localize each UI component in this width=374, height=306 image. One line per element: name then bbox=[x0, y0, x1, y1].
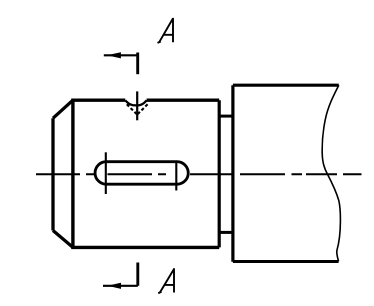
section A bottom arrowhead bbox=[107, 283, 121, 289]
relief groove bottom edge bbox=[219, 231, 233, 234]
section A top horizontal line bbox=[104, 54, 138, 56]
chamfer edge vertical bbox=[71, 100, 74, 247]
oil hole hidden cone right bbox=[138, 104, 148, 114]
chamfer top bbox=[53, 100, 73, 118]
relief groove top edge bbox=[219, 115, 233, 118]
keyway slot outline bbox=[95, 162, 188, 185]
centerline horizontal dash-dot bbox=[36, 173, 362, 175]
oil hole hidden cone left bbox=[127, 104, 137, 114]
large cylinder left shoulder face bbox=[231, 85, 234, 262]
shaft left end face bbox=[51, 118, 54, 230]
label A top bbox=[158, 18, 174, 43]
countersink dip in top edge bbox=[125, 100, 146, 105]
oil hole centerline vertical bbox=[136, 91, 138, 120]
shaft top edge left of countersink dip bbox=[71, 98, 125, 101]
large cylinder top edge bbox=[233, 84, 339, 87]
large cylinder bottom edge bbox=[233, 260, 339, 263]
label A bottom bbox=[158, 268, 174, 293]
shaft right end face bbox=[218, 100, 221, 247]
section A bottom horizontal line bbox=[103, 285, 138, 287]
break line S-curve bbox=[322, 85, 340, 261]
shaft bottom edge bbox=[71, 246, 219, 249]
keyway left arc centerline vertical bbox=[105, 152, 107, 194]
section A top cutting trace bbox=[136, 53, 139, 75]
chamfer bottom bbox=[53, 231, 73, 248]
section A bottom cutting trace bbox=[136, 263, 139, 286]
keyway right arc centerline vertical bbox=[175, 162, 177, 191]
shaft top edge right of dip bbox=[147, 98, 220, 101]
section A top arrowhead bbox=[107, 52, 121, 58]
